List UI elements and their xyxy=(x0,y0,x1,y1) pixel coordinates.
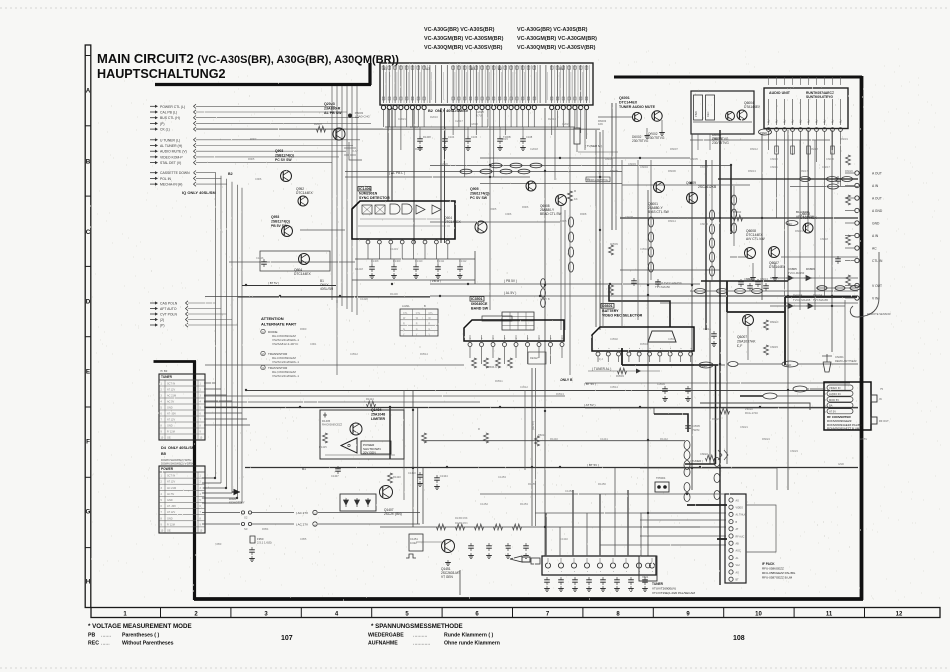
svg-text:C106: C106 xyxy=(471,135,478,139)
svg-text:AU: AU xyxy=(776,119,779,123)
svg-text:( TUNER AL ): ( TUNER AL ) xyxy=(592,367,611,371)
svg-text:R1430: R1430 xyxy=(390,292,398,296)
svg-text:B: B xyxy=(86,159,91,166)
svg-text:AG: AG xyxy=(736,571,740,574)
svg-text:Q1404: Q1404 xyxy=(371,408,382,412)
svg-text:VIDEO: VIDEO xyxy=(736,507,744,510)
svg-text:C906: C906 xyxy=(505,212,512,216)
svg-text:BUS CTL (H): BUS CTL (H) xyxy=(160,116,180,120)
svg-text:(2): (2) xyxy=(160,318,164,322)
svg-text:R6020: R6020 xyxy=(845,169,853,173)
svg-text:AT 12V: AT 12V xyxy=(167,389,175,392)
svg-text:R3511: R3511 xyxy=(495,379,503,383)
svg-text:R6024: R6024 xyxy=(762,437,770,441)
svg-text:C3512: C3512 xyxy=(520,385,528,389)
svg-text:REC: REC xyxy=(706,111,710,117)
svg-text:E: E xyxy=(86,369,90,376)
svg-text:RH-DX0069CEZZ: RH-DX0069CEZZ xyxy=(322,424,342,427)
svg-text:D6003 230/75TVG: D6003 230/75TVG xyxy=(587,179,608,182)
svg-text:R1442: R1442 xyxy=(660,437,668,441)
svg-text:NJM2901N: NJM2901N xyxy=(359,192,378,196)
svg-text:11: 11 xyxy=(826,612,833,618)
svg-text:C104: C104 xyxy=(448,135,455,139)
svg-text:DTC144EX: DTC144EX xyxy=(294,272,311,276)
svg-text:B2: B2 xyxy=(428,109,433,113)
svg-text:AT 12V: AT 12V xyxy=(167,511,175,514)
svg-text:PC SV SW: PC SV SW xyxy=(275,158,292,162)
svg-text:C: C xyxy=(86,229,91,236)
svg-text:ATTENTION: ATTENTION xyxy=(261,316,284,321)
svg-text:AFT 4 ANSW: AFT 4 ANSW xyxy=(796,215,814,219)
svg-text:PRED: PRED xyxy=(700,364,707,368)
svg-text:C6007: C6007 xyxy=(700,165,708,169)
svg-text:F/ 12M: F/ 12M xyxy=(167,431,175,434)
svg-text:Q953: Q953 xyxy=(271,215,279,219)
svg-text:PC SV SW: PC SV SW xyxy=(470,196,488,200)
svg-text:R6016: R6016 xyxy=(538,433,546,437)
svg-text:G: G xyxy=(416,328,418,331)
svg-text:IQ ONLY 40SL/SM: IQ ONLY 40SL/SM xyxy=(182,190,216,195)
svg-text:C6012: C6012 xyxy=(700,222,708,226)
svg-text:R1415: R1415 xyxy=(319,445,327,449)
svg-text:R1414: R1414 xyxy=(366,397,374,401)
svg-text:..........: .......... xyxy=(413,633,427,639)
svg-text:AUDIO UNIT: AUDIO UNIT xyxy=(769,91,791,95)
svg-text:AFT AUTO: AFT AUTO xyxy=(160,307,177,311)
svg-text:H: H xyxy=(86,579,91,586)
svg-text:Q905: Q905 xyxy=(470,187,479,191)
svg-text:R2016: R2016 xyxy=(430,115,438,119)
svg-text:GND: GND xyxy=(167,499,173,502)
svg-text:C6012: C6012 xyxy=(744,277,752,281)
svg-text:C6022: C6022 xyxy=(700,452,708,456)
svg-text:IC3501: IC3501 xyxy=(471,297,483,301)
svg-text:AU: AU xyxy=(808,119,811,123)
svg-text:ONLY 40SL/SM/SV: ONLY 40SL/SM/SV xyxy=(435,109,469,113)
svg-text:Q2003: Q2003 xyxy=(324,102,335,106)
svg-text:AU: AU xyxy=(832,119,835,123)
svg-text:R1409: R1409 xyxy=(393,260,401,263)
svg-text:10K: 10K xyxy=(598,122,603,126)
svg-text:GND: GND xyxy=(838,462,844,466)
svg-text:AU: AU xyxy=(768,119,771,123)
svg-text:GE: GE xyxy=(167,529,171,532)
svg-text:A HML: A HML xyxy=(402,304,410,308)
svg-text:2SC2412KB: 2SC2412KB xyxy=(698,185,717,189)
svg-text:SCT IN: SCT IN xyxy=(167,475,175,478)
svg-text:C1344: C1344 xyxy=(440,474,448,478)
svg-text:AU: AU xyxy=(792,119,795,123)
svg-text:C961: C961 xyxy=(310,342,317,346)
svg-text:1K: 1K xyxy=(574,197,578,201)
svg-text:BEAD CTL SW: BEAD CTL SW xyxy=(540,212,562,216)
svg-text:BAND SW: BAND SW xyxy=(471,307,489,311)
svg-text:D6001: D6001 xyxy=(410,125,418,129)
svg-text:C6011: C6011 xyxy=(770,165,778,169)
svg-text:C3510: C3510 xyxy=(640,247,648,251)
svg-text:D1405: D1405 xyxy=(322,419,331,423)
svg-text:R1420: R1420 xyxy=(393,475,401,479)
svg-text:C1340: C1340 xyxy=(560,537,568,541)
svg-text:V OUT: V OUT xyxy=(872,284,882,288)
svg-text:G: G xyxy=(428,328,430,331)
svg-text:AUFNAHME: AUFNAHME xyxy=(368,641,398,647)
svg-text:(AL 5V): (AL 5V) xyxy=(531,421,535,430)
svg-text:25A1048: 25A1048 xyxy=(371,413,385,417)
svg-text:22K: 22K xyxy=(585,177,590,181)
svg-text:C6010: C6010 xyxy=(770,157,778,161)
svg-text:R906: R906 xyxy=(522,205,529,209)
svg-text:C2018: C2018 xyxy=(530,147,538,151)
svg-text:R2015: R2015 xyxy=(500,137,508,141)
svg-text:AU: AU xyxy=(816,119,819,123)
svg-text:VIDEO IN: VIDEO IN xyxy=(829,386,841,390)
svg-text:X601: X601 xyxy=(642,575,649,579)
svg-text:R6012: R6012 xyxy=(750,147,758,151)
svg-text:( AC 27V: ( AC 27V xyxy=(296,511,308,515)
svg-text:TVY-MA150: TVY-MA150 xyxy=(655,285,670,289)
svg-text:AU: AU xyxy=(840,119,843,123)
svg-text:R2019: R2019 xyxy=(548,117,556,121)
svg-text:C6017: C6017 xyxy=(822,165,830,169)
svg-text:C1451: C1451 xyxy=(410,537,418,541)
svg-text:R1418: R1418 xyxy=(355,267,363,271)
svg-text:HAUPTSCHALTUNG2: HAUPTSCHALTUNG2 xyxy=(97,67,226,81)
svg-text:C2023: C2023 xyxy=(562,122,570,126)
svg-text:VS2SA812-3-4DYC: VS2SA812-3-4DYC xyxy=(272,342,299,346)
svg-text:VC-A30GM(BR) VC-A30GM(BR): VC-A30GM(BR) VC-A30GM(BR) xyxy=(517,36,597,42)
svg-text:DTA144EX: DTA144EX xyxy=(744,105,761,109)
svg-text:RF AGC: RF AGC xyxy=(736,535,745,538)
svg-text:D: D xyxy=(86,299,91,306)
svg-text:VC-A30QM(BR) VC-A30SV(BR): VC-A30QM(BR) VC-A30SV(BR) xyxy=(424,45,503,51)
svg-text:C908: C908 xyxy=(560,219,567,223)
svg-text:DTC144EX: DTC144EX xyxy=(444,220,461,224)
svg-text:R: R xyxy=(416,323,418,326)
svg-text:2SA1037AK: 2SA1037AK xyxy=(737,340,756,344)
svg-text:SCT IN: SCT IN xyxy=(167,383,175,386)
svg-text:GE: GE xyxy=(167,437,171,440)
svg-text:C2017: C2017 xyxy=(455,119,463,123)
svg-text:R1440: R1440 xyxy=(550,437,558,441)
svg-text:R6017: R6017 xyxy=(800,169,808,173)
svg-text:C3505: C3505 xyxy=(692,424,700,428)
svg-text:C953: C953 xyxy=(215,542,222,546)
svg-text:AT 12V: AT 12V xyxy=(167,481,175,484)
svg-text:R6013: R6013 xyxy=(748,169,756,173)
svg-text:Runde Klammern ( ): Runde Klammern ( ) xyxy=(444,633,494,639)
svg-text:ALTERNATE PART: ALTERNATE PART xyxy=(261,322,297,327)
svg-text:( AT 5V ): ( AT 5V ) xyxy=(584,403,596,407)
svg-text:R6023: R6023 xyxy=(712,417,720,421)
svg-text:R903: R903 xyxy=(250,137,257,141)
svg-text:AT -30V: AT -30V xyxy=(167,505,176,508)
svg-text:VS2SC2412KERL-1: VS2SC2412KERL-1 xyxy=(272,374,299,378)
svg-text:A IN: A IN xyxy=(872,234,879,238)
svg-text:VC-A30QM(BR) VC-A30SV(BR): VC-A30QM(BR) VC-A30SV(BR) xyxy=(517,45,596,51)
svg-text:C1410: C1410 xyxy=(415,260,423,263)
svg-text:R6006: R6006 xyxy=(668,169,676,173)
svg-text:CVT POLN: CVT POLN xyxy=(160,313,177,317)
svg-text:( BT 5V ): ( BT 5V ) xyxy=(584,382,596,386)
svg-text:CAL PB (L): CAL PB (L) xyxy=(160,111,177,115)
svg-text:12: 12 xyxy=(896,612,903,618)
svg-text:C6005: C6005 xyxy=(690,157,698,161)
svg-text:CTL: CTL xyxy=(416,312,421,315)
svg-text:G: G xyxy=(86,509,91,516)
svg-text:AL TUNER (H): AL TUNER (H) xyxy=(160,144,182,148)
svg-text:( BT 5V ): ( BT 5V ) xyxy=(268,281,279,285)
svg-text:S3: S3 xyxy=(244,527,248,531)
svg-text:R.A?: R.A? xyxy=(352,149,358,153)
svg-text:CN301: CN301 xyxy=(835,355,844,359)
svg-text:Without Parentheses: Without Parentheses xyxy=(122,641,174,647)
svg-text:R3509: R3509 xyxy=(610,242,618,246)
svg-text:CASSETTE DOWN: CASSETTE DOWN xyxy=(160,171,190,175)
svg-text:R: R xyxy=(403,323,405,326)
svg-text:......: ...... xyxy=(101,641,110,647)
svg-text:.......: ....... xyxy=(101,633,111,639)
svg-text:C6004: C6004 xyxy=(640,165,648,169)
svg-text:0.022: 0.022 xyxy=(410,541,417,545)
svg-text:2SB1174(Q): 2SB1174(Q) xyxy=(271,220,290,224)
svg-text:GND: GND xyxy=(167,425,173,428)
svg-text:R6014: R6014 xyxy=(668,219,676,223)
svg-text:GND: GND xyxy=(167,407,173,410)
svg-text:C2026: C2026 xyxy=(476,110,484,114)
svg-text:AT -30V: AT -30V xyxy=(167,413,176,416)
svg-text:GND: GND xyxy=(872,222,880,226)
svg-text:VC-A30G(BR) VC-A30S(BR): VC-A30G(BR) VC-A30S(BR) xyxy=(424,27,495,33)
svg-text:C906: C906 xyxy=(255,177,262,181)
svg-text:AUDIO MUTE (V): AUDIO MUTE (V) xyxy=(160,150,187,154)
svg-text:RF OUT: RF OUT xyxy=(879,419,889,423)
svg-text:B2: B2 xyxy=(228,172,233,176)
svg-text:R1453: R1453 xyxy=(520,502,528,506)
svg-text:ONLY B: ONLY B xyxy=(560,378,573,382)
svg-text:VL2: VL2 xyxy=(736,564,741,567)
svg-text:SCHOTTKY: SCHOTTKY xyxy=(229,501,245,505)
svg-text:VTUV/T29E(1-R20 PAL/SECAM: VTUV/T29E(1-R20 PAL/SECAM xyxy=(652,591,695,595)
svg-text:R1411: R1411 xyxy=(437,260,445,263)
svg-text:(P): (P) xyxy=(160,324,165,328)
svg-text:4.7U: 4.7U xyxy=(476,114,482,118)
svg-text:B5: B5 xyxy=(161,452,166,456)
svg-text:MECHA-IN (H): MECHA-IN (H) xyxy=(160,183,182,187)
svg-text:R3513: R3513 xyxy=(556,392,564,396)
svg-text:CK (L): CK (L) xyxy=(160,128,170,132)
svg-text:( PB 5V ): ( PB 5V ) xyxy=(504,279,517,283)
svg-text:SYNC DETECTOR: SYNC DETECTOR xyxy=(359,196,390,200)
svg-text:( TUNER ): ( TUNER ) xyxy=(690,459,703,463)
svg-text:F: F xyxy=(86,439,90,446)
svg-text:MOD 5V: MOD 5V xyxy=(829,398,839,402)
svg-text:POWER CTL (L): POWER CTL (L) xyxy=(160,105,185,109)
svg-text:REC: REC xyxy=(88,641,99,647)
svg-text:2SB1174(Q): 2SB1174(Q) xyxy=(470,192,489,196)
svg-text:A OUT: A OUT xyxy=(872,172,882,176)
svg-text:PRED: PRED xyxy=(784,363,791,367)
svg-text:C1412: C1412 xyxy=(459,260,467,263)
svg-text:AG: AG xyxy=(736,499,740,502)
svg-text:P6010: P6010 xyxy=(745,407,753,411)
svg-text:C2021: C2021 xyxy=(398,117,406,121)
svg-text:R3503: R3503 xyxy=(616,374,624,378)
svg-text:TVCC-MA150: TVCC-MA150 xyxy=(788,271,805,275)
svg-text:V IN: V IN xyxy=(872,297,879,301)
svg-text:R1459 45K: R1459 45K xyxy=(455,517,468,520)
svg-text:DTC144EX: DTC144EX xyxy=(619,101,638,105)
svg-text:REMOTE SENSOR: REMOTE SENSOR xyxy=(867,312,891,316)
svg-text:LIMITER: LIMITER xyxy=(371,417,385,421)
svg-text:A OUT: A OUT xyxy=(872,197,882,201)
svg-text:C6021: C6021 xyxy=(740,425,748,429)
svg-text:Ohne runde Klammern: Ohne runde Klammern xyxy=(444,641,500,647)
svg-text:C6014: C6014 xyxy=(703,327,711,331)
svg-text:B: B xyxy=(424,304,426,308)
svg-text:CAS POLN: CAS POLN xyxy=(160,302,178,306)
svg-text:( AL 5V ): ( AL 5V ) xyxy=(504,291,516,295)
svg-text:DTC144EX: DTC144EX xyxy=(296,191,313,195)
svg-text:A IN: A IN xyxy=(872,184,879,188)
svg-text:POWER: POWER xyxy=(161,467,174,471)
svg-text:AU: AU xyxy=(784,119,787,123)
svg-text:Q6001: Q6001 xyxy=(619,96,630,100)
svg-text:AC 5V: AC 5V xyxy=(167,493,175,496)
svg-text:C955: C955 xyxy=(300,537,307,541)
svg-text:RCA-174U: RCA-174U xyxy=(745,411,758,415)
svg-text:AC: AC xyxy=(872,247,877,251)
svg-text:RONVR0095AEZZ B,UM: RONVR0095AEZZ B,UM xyxy=(827,427,860,431)
svg-text:R: R xyxy=(478,427,480,431)
svg-text:TP6004: TP6004 xyxy=(656,476,666,480)
svg-text:AU: AU xyxy=(824,119,827,123)
svg-text:DOWN SHOWS(2) WITH: DOWN SHOWS(2) WITH xyxy=(161,458,191,462)
svg-text:C1454: C1454 xyxy=(565,489,573,493)
svg-text:C3502: C3502 xyxy=(610,337,618,341)
svg-text:PRED: PRED xyxy=(760,131,767,135)
svg-text:VIDEO KOM-P: VIDEO KOM-P xyxy=(160,155,183,159)
svg-text:VC-A30GM(BR) VC-A30SM(BR): VC-A30GM(BR) VC-A30SM(BR) xyxy=(424,36,504,42)
svg-text:F/ 12M: F/ 12M xyxy=(167,523,175,526)
svg-text:* VOLTAGE MEASUREMENT MODE: * VOLTAGE MEASUREMENT MODE xyxy=(88,623,192,630)
svg-text:Parentheses ( ): Parentheses ( ) xyxy=(122,633,159,639)
svg-text:R1456: R1456 xyxy=(598,482,606,486)
svg-text:U TUNER (L): U TUNER (L) xyxy=(160,138,180,142)
svg-text:RESET: RESET xyxy=(530,356,539,360)
svg-text:C6013: C6013 xyxy=(760,277,768,281)
svg-text:10: 10 xyxy=(755,612,762,618)
svg-text:E,F: E,F xyxy=(737,344,742,348)
svg-text:40SL/SM: 40SL/SM xyxy=(320,287,333,291)
svg-text:AUDIO IN: AUDIO IN xyxy=(829,392,841,396)
svg-text:R908: R908 xyxy=(580,212,587,216)
svg-text:CTL: CTL xyxy=(403,312,408,315)
svg-text:PB: PB xyxy=(88,633,95,639)
svg-text:REMO-ANT75EZZ: REMO-ANT75EZZ xyxy=(835,359,857,363)
svg-text:* SPANNUNGSMESSMETHODE: * SPANNUNGSMESSMETHODE xyxy=(371,623,463,630)
svg-text:R6021: R6021 xyxy=(795,229,803,233)
svg-text:C3514: C3514 xyxy=(610,385,618,389)
svg-text:C1420: C1420 xyxy=(360,297,368,301)
svg-text:CTL IN: CTL IN xyxy=(872,259,883,263)
svg-text:( AC 27V: ( AC 27V xyxy=(296,523,308,527)
svg-text:AB: AB xyxy=(736,543,740,546)
svg-text:R3504: R3504 xyxy=(640,342,648,346)
svg-text:REC: REC xyxy=(787,223,792,226)
svg-text:BA: BA xyxy=(829,404,833,408)
svg-text:DTA144EX: DTA144EX xyxy=(769,265,786,269)
svg-text:RFU-0586GEZZ: RFU-0586GEZZ xyxy=(762,567,784,571)
svg-text:PW/M: PW/M xyxy=(692,428,700,432)
svg-text:C1419: C1419 xyxy=(390,247,398,251)
svg-text:IN: IN xyxy=(879,397,882,401)
svg-text:R2007: R2007 xyxy=(314,122,323,126)
svg-text:R1408: R1408 xyxy=(423,135,431,139)
svg-text:C108: C108 xyxy=(526,135,533,139)
svg-text:23A880-R: 23A880-R xyxy=(324,107,341,111)
svg-text:IX0640CE: IX0640CE xyxy=(471,302,488,306)
svg-text:AL T/AL/C: AL T/AL/C xyxy=(736,514,747,517)
svg-text:............: ............ xyxy=(413,641,430,647)
svg-text:C6016: C6016 xyxy=(826,157,834,161)
svg-text:AU: AU xyxy=(800,119,803,123)
svg-text:230/75TVG: 230/75TVG xyxy=(712,137,729,141)
svg-text:R905: R905 xyxy=(248,157,255,161)
svg-text:AC 21M: AC 21M xyxy=(167,487,176,490)
svg-text:C1410: C1410 xyxy=(408,471,416,475)
svg-text:A: A xyxy=(86,88,91,95)
svg-text:230/75TVG: 230/75TVG xyxy=(632,139,649,143)
svg-text:B1 C6006: B1 C6006 xyxy=(796,210,810,214)
svg-text:C3506: C3506 xyxy=(668,337,676,341)
svg-text:AL PB SW: AL PB SW xyxy=(324,111,342,115)
svg-text:BT: BT xyxy=(736,579,740,582)
svg-text:TUNER: TUNER xyxy=(652,582,664,586)
svg-text:2SC2H (BN): 2SC2H (BN) xyxy=(384,512,402,516)
svg-text:VC-A30G(BR) VC-A30S(BR): VC-A30G(BR) VC-A30S(BR) xyxy=(517,27,588,33)
svg-text:C6008: C6008 xyxy=(625,215,633,219)
svg-text:R1455: R1455 xyxy=(528,482,536,486)
svg-text:107: 107 xyxy=(281,635,293,642)
svg-text:VT GEN: VT GEN xyxy=(441,575,454,579)
svg-text:STAL DET (V): STAL DET (V) xyxy=(160,161,181,165)
svg-text:A1: A1 xyxy=(383,67,387,71)
svg-text:S2: S2 xyxy=(244,516,248,520)
svg-text:B3: B3 xyxy=(471,67,475,71)
svg-text:2SB1174(Q): 2SB1174(Q) xyxy=(275,154,294,158)
svg-text:C3504: C3504 xyxy=(657,382,665,386)
svg-text:R6018: R6018 xyxy=(810,147,818,151)
svg-text:D3601: D3601 xyxy=(602,304,613,308)
svg-text:C1453: C1453 xyxy=(498,475,506,479)
svg-text:VS2SC2412KERL-1: VS2SC2412KERL-1 xyxy=(272,360,299,364)
svg-text:C1408: C1408 xyxy=(371,260,379,263)
svg-text:R2021: R2021 xyxy=(415,147,423,151)
svg-text:C6018: C6018 xyxy=(820,237,828,241)
svg-text:R6007: R6007 xyxy=(670,147,678,151)
svg-text:Q6007: Q6007 xyxy=(737,335,747,339)
svg-text:R6022: R6022 xyxy=(770,320,778,324)
svg-text:BATTERY: BATTERY xyxy=(602,309,619,313)
svg-text:LOAD-CHG: LOAD-CHG xyxy=(355,115,370,119)
svg-text:B1: B1 xyxy=(302,467,306,471)
svg-text:AC 21M: AC 21M xyxy=(167,395,176,398)
svg-text:C1441: C1441 xyxy=(600,437,608,441)
svg-text:CTL: CTL xyxy=(428,312,433,315)
svg-text:R905: R905 xyxy=(490,207,497,211)
svg-text:R3506-9: R3506-9 xyxy=(486,365,497,369)
